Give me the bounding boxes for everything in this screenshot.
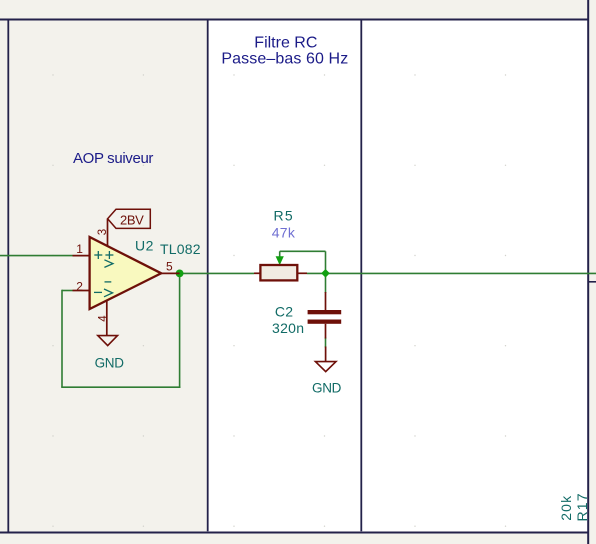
wire output to resistor bbox=[180, 272, 254, 274]
svg-text:R17: R17 bbox=[574, 492, 590, 521]
resistor reference label R5 bbox=[274, 207, 295, 223]
op-amp plus input marker bbox=[94, 251, 102, 259]
white sheet area bbox=[208, 20, 588, 532]
junction dot op-amp output bbox=[176, 270, 184, 278]
ground GND2 pin below capacitor bbox=[325, 347, 327, 362]
svg-text:C2: C2 bbox=[275, 303, 294, 319]
resistor R5 body bbox=[260, 265, 297, 280]
capacitor value label 320n bbox=[272, 320, 304, 336]
op-amp U2 pin 4 stub bbox=[106, 301, 108, 336]
svg-text:1: 1 bbox=[76, 242, 83, 256]
resistor R5 left pin stub bbox=[254, 272, 261, 274]
pin number 3 rotated bbox=[97, 229, 109, 235]
frame right border line bbox=[587, 0, 589, 544]
op-amp U2 triangle body bbox=[90, 237, 162, 309]
svg-text:GND: GND bbox=[312, 381, 342, 396]
op-amp U2 pin 3 stub bbox=[107, 219, 109, 246]
wire feedback left vertical bbox=[61, 290, 63, 388]
note text AOP suiveur bbox=[73, 150, 153, 167]
resistor value label 47k bbox=[272, 225, 296, 241]
op-amp U2 pin 2 stub bbox=[73, 290, 90, 292]
frame bottom border line bbox=[0, 532, 589, 534]
svg-text:3: 3 bbox=[97, 229, 109, 235]
wire junction to capacitor bbox=[325, 273, 327, 293]
wire capacitor to ground bbox=[325, 338, 327, 348]
frame left border line bbox=[7, 20, 9, 533]
svg-text:U2: U2 bbox=[135, 237, 154, 253]
section divider line 1 bbox=[207, 21, 209, 532]
op-amp minus input marker bbox=[94, 291, 102, 293]
ground GND2 label bbox=[312, 381, 342, 396]
wire wiper right vertical to junction bbox=[325, 251, 327, 273]
power flag 2BV text bbox=[120, 212, 144, 227]
resistor R5 right pin stub bbox=[297, 272, 307, 274]
resistor R17 reference label rotated bbox=[574, 492, 590, 521]
op-amp V+ letter V rotated bbox=[104, 260, 113, 268]
capacitor C2 top pin bbox=[325, 292, 327, 310]
grid dots bbox=[52, 74, 506, 527]
svg-text:TL082: TL082 bbox=[160, 241, 201, 257]
svg-text:AOP suiveur: AOP suiveur bbox=[73, 150, 153, 167]
ground symbol GND1 below op-amp bbox=[98, 336, 118, 346]
junction dot at R5/C2 node bbox=[321, 269, 330, 278]
wire wiper top horizontal bbox=[280, 250, 326, 252]
capacitor C2 bottom plate bbox=[308, 320, 342, 324]
svg-text:47k: 47k bbox=[272, 225, 296, 241]
svg-text:R5: R5 bbox=[274, 207, 295, 223]
wiper arrow head bbox=[276, 256, 284, 265]
op-amp value label TL082 bbox=[160, 241, 201, 257]
power flag 2BV pennant bbox=[108, 209, 151, 228]
ground GND1 label bbox=[95, 356, 125, 371]
wire wiper vertical above arrow bbox=[279, 251, 281, 257]
svg-text:Filtre RC: Filtre RC bbox=[254, 35, 317, 52]
svg-text:320n: 320n bbox=[272, 320, 304, 336]
op-amp V- letter V rotated bbox=[104, 289, 113, 297]
wire input to pin 1 bbox=[0, 255, 73, 257]
ground symbol GND2 bbox=[315, 362, 336, 372]
pin number 5 bbox=[166, 259, 173, 273]
wire resistor to right edge bbox=[307, 272, 596, 274]
frame top border line bbox=[0, 19, 589, 21]
svg-text:Passe–bas 60 Hz: Passe–bas 60 Hz bbox=[221, 51, 348, 68]
svg-text:4: 4 bbox=[97, 315, 109, 322]
capacitor C2 top plate bbox=[308, 310, 342, 314]
wire feedback to pin 2 bbox=[62, 290, 73, 292]
pin number 2 bbox=[76, 279, 83, 293]
note text Filtre RC bbox=[254, 35, 317, 52]
svg-text:20k: 20k bbox=[558, 495, 574, 521]
resistor R17 value label 20k rotated bbox=[558, 495, 574, 521]
capacitor C2 bottom pin bbox=[325, 324, 327, 339]
op-amp V+ plus marker bbox=[105, 251, 113, 259]
frame tick mark right edge bbox=[589, 281, 596, 283]
pin number 1 bbox=[76, 242, 83, 256]
op-amp U2 pin 5 output stub bbox=[161, 272, 180, 274]
svg-text:5: 5 bbox=[166, 259, 173, 273]
op-amp U2 pin 1 stub bbox=[73, 255, 90, 257]
op-amp V- minus marker bbox=[105, 281, 112, 283]
pin number 4 rotated bbox=[97, 315, 109, 322]
capacitor reference label C2 bbox=[275, 303, 294, 319]
svg-text:2BV: 2BV bbox=[120, 212, 144, 227]
section divider line 2 bbox=[360, 21, 362, 532]
op-amp reference label U2 bbox=[135, 237, 154, 253]
svg-text:GND: GND bbox=[95, 356, 125, 371]
svg-text:2: 2 bbox=[76, 279, 83, 293]
wire feedback right vertical bbox=[179, 273, 181, 388]
note text Passe-bas 60 Hz bbox=[221, 51, 348, 68]
wire feedback bottom horizontal bbox=[61, 386, 180, 388]
